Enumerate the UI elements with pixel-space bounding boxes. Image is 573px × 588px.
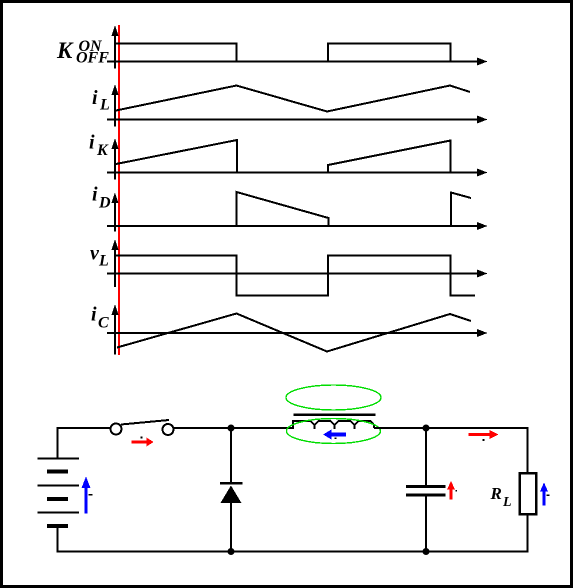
junction node diode top (228, 425, 235, 432)
iL inductor current waveform (116, 86, 470, 112)
switch current arrow (red right) (132, 438, 154, 447)
capacitor C top plate (406, 485, 446, 488)
diode D body (221, 486, 242, 504)
wire bottom rail (58, 551, 529, 553)
switch K blade (121, 420, 169, 425)
iC waveform vertical axis (112, 304, 119, 355)
iK waveform vertical axis (112, 138, 119, 180)
iC capacitor current waveform (117, 314, 471, 352)
vL inductor voltage waveform (115, 256, 475, 296)
dot mark under load arrow (483, 439, 485, 441)
vL waveform vertical axis (112, 239, 119, 287)
inductor current arrow (blue left) (323, 430, 346, 440)
svg-text:L: L (502, 495, 512, 510)
diode top lead (230, 428, 232, 483)
wire switch to diode junction (174, 427, 232, 429)
svg-text:C: C (98, 315, 109, 332)
junction node capacitor bottom (423, 548, 430, 555)
highlight ellipse bottom (green) (287, 419, 381, 444)
capacitor top lead (425, 428, 427, 485)
svg-text:i: i (89, 132, 95, 154)
svg-text:OFF: OFF (76, 50, 109, 67)
vL waveform time axis (107, 270, 488, 278)
iD diode current waveform (237, 192, 472, 226)
capacitor current arrow (red up) (447, 481, 455, 500)
wire battery bottom lead (57, 526, 59, 553)
dot mark near capacitor arrow (456, 490, 458, 492)
diode D cathode bar (220, 482, 243, 485)
svg-text:i: i (92, 184, 98, 206)
svg-text:i: i (91, 304, 97, 326)
svg-text:L: L (98, 253, 109, 270)
resistor RL (520, 473, 537, 514)
wire right branch top (527, 428, 529, 473)
svg-text:K: K (56, 38, 74, 63)
iD waveform vertical axis (112, 193, 119, 232)
junction node diode bottom (228, 548, 235, 555)
iK waveform time axis (107, 169, 488, 177)
dot mark under switch arrow (141, 437, 143, 439)
switch K left contact (111, 424, 122, 435)
junction node capacitor top (423, 425, 430, 432)
inductor winding stem 2 (334, 424, 336, 429)
inductor winding stem 3 (354, 424, 356, 429)
inductor core bar (294, 414, 376, 417)
iL waveform time axis (107, 116, 488, 124)
svg-text:i: i (92, 87, 98, 109)
minus mark near load arrow (547, 495, 550, 497)
capacitor C bottom plate (406, 494, 446, 497)
iC waveform time axis (107, 329, 488, 337)
svg-text:R: R (490, 484, 502, 503)
iD waveform time axis (107, 222, 488, 230)
K waveform time axis (107, 58, 488, 66)
inductor winding stem 1 (314, 424, 316, 429)
K waveform vertical axis (112, 25, 119, 69)
load current arrow (red right) (469, 430, 499, 439)
battery voltage arrow (blue up) (82, 477, 91, 514)
svg-text:L: L (99, 97, 110, 114)
K gate ON/OFF waveform (115, 44, 451, 62)
svg-text:D: D (98, 195, 111, 212)
svg-text:K: K (96, 142, 109, 159)
wire battery top lead (58, 428, 111, 458)
highlight ellipse top (green) (286, 385, 381, 410)
load voltage arrow (blue up) (540, 483, 548, 506)
wire inductor to right corner (374, 427, 529, 429)
diode bottom lead (230, 503, 232, 552)
battery source (38, 459, 80, 527)
switch K right contact (163, 424, 174, 435)
wire diode junction to inductor (231, 427, 293, 429)
time marker (red vertical line) (118, 25, 120, 355)
iK switch current waveform (116, 140, 451, 173)
dot mark under inductor arrow (335, 438, 337, 440)
wire right branch bottom (527, 514, 529, 553)
capacitor bottom lead (425, 497, 427, 552)
iL waveform vertical axis (112, 84, 119, 127)
inductor L winding (288, 421, 374, 428)
minus mark near battery arrow (89, 494, 93, 496)
